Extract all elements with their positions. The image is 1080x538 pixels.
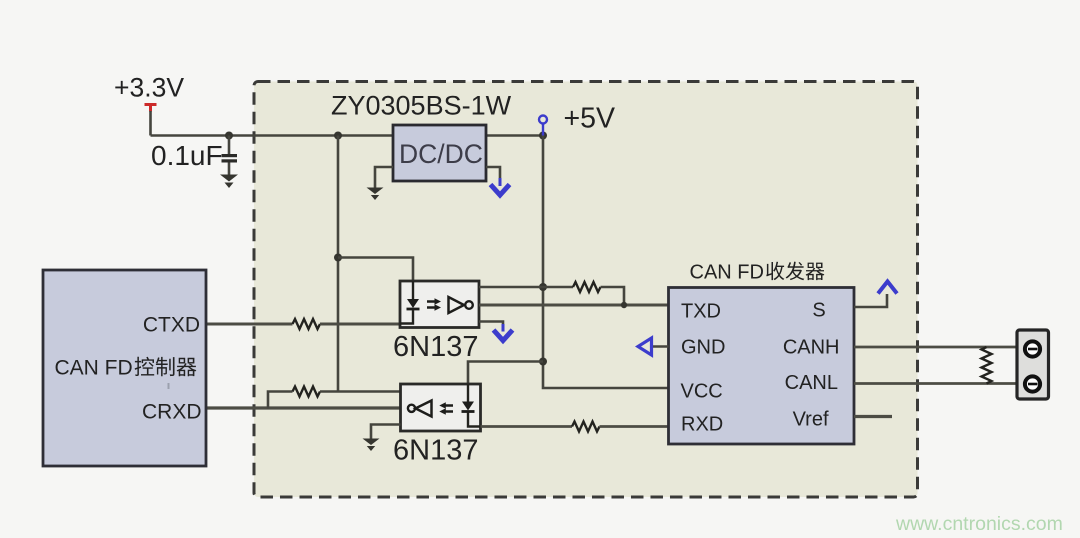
svg-text:CANL: CANL bbox=[785, 372, 838, 394]
stray mark bbox=[168, 383, 170, 389]
wire CANH bbox=[854, 346, 1017, 349]
wire +3.3V rail bbox=[151, 134, 396, 137]
wire CRXD bbox=[206, 406, 401, 409]
svg-text:S: S bbox=[812, 300, 825, 322]
svg-text:CAN FD: CAN FD bbox=[690, 262, 764, 284]
wire opto1 vcc to 5V bbox=[479, 286, 543, 289]
svg-text:Vref: Vref bbox=[793, 409, 829, 431]
wire opto1 output to TXD bbox=[479, 304, 669, 307]
node junction LED branch bbox=[334, 254, 342, 262]
wire +3.3V drop bbox=[149, 111, 152, 136]
svg-text:VCC: VCC bbox=[681, 381, 723, 403]
capacitor 0.1uF bbox=[151, 136, 237, 176]
wire opto1 gnd bbox=[479, 322, 503, 326]
power flag +3.3V bbox=[114, 73, 184, 112]
wire opto2 cathode to RXD bbox=[481, 425, 573, 428]
node junction 3.3V column bbox=[334, 132, 342, 140]
resistor (RXD series) bbox=[572, 422, 600, 432]
svg-text:RXD: RXD bbox=[681, 414, 723, 436]
power isolated (S pin, blue up arrow) bbox=[878, 282, 897, 294]
wire rail DCDC to +5V node bbox=[486, 134, 543, 137]
node junction +5V bbox=[539, 132, 547, 140]
wire LED anode branch bbox=[338, 258, 413, 283]
optocoupler U2 6N137 (receive) bbox=[401, 384, 481, 431]
wire CTXD to opto1 bbox=[320, 323, 400, 326]
transceiver box CAN FD bbox=[669, 262, 855, 445]
optocoupler U1 6N137 (transmit) bbox=[400, 281, 479, 328]
resistor (bus termination, vertical) bbox=[982, 347, 992, 384]
controller box CAN FD bbox=[43, 270, 206, 466]
wire S pin bbox=[854, 294, 887, 307]
node junction pullup bbox=[539, 283, 547, 291]
svg-text:CRXD: CRXD bbox=[142, 401, 202, 424]
node junction opto2 anode bbox=[539, 358, 547, 366]
DC/DC converter U3 bbox=[393, 125, 486, 181]
svg-text:6N137: 6N137 bbox=[393, 331, 478, 363]
ground isolated (DCDC output side, blue) bbox=[491, 178, 510, 195]
wire opto2 anode to 5V bbox=[468, 362, 543, 386]
wire pullup jog bbox=[268, 392, 293, 409]
power pin +5V bbox=[539, 103, 615, 136]
ground (DCDC input side) bbox=[367, 188, 384, 201]
ground isolated (transceiver GND, blue left arrow) bbox=[638, 338, 652, 355]
svg-text:www.cntronics.com: www.cntronics.com bbox=[895, 513, 1063, 535]
svg-text:ZY0305BS-1W: ZY0305BS-1W bbox=[331, 91, 512, 121]
wire GND pin bbox=[652, 345, 669, 348]
resistor (CTXD series) bbox=[293, 319, 321, 329]
wire opto2 gnd bbox=[371, 425, 401, 440]
wire pullup branch bbox=[543, 286, 573, 289]
wire to RXD pin bbox=[600, 425, 669, 428]
svg-text:DC/DC: DC/DC bbox=[399, 139, 483, 169]
svg-text:+5V: +5V bbox=[564, 103, 616, 135]
svg-text:CTXD: CTXD bbox=[143, 314, 200, 337]
wire CTXD bbox=[206, 323, 293, 326]
node junction cap bbox=[225, 132, 233, 140]
svg-text:GND: GND bbox=[681, 337, 725, 359]
ground (opto2 output side) bbox=[363, 439, 380, 452]
wire pullup to TXD line bbox=[601, 287, 625, 305]
wire 5V column bbox=[543, 136, 669, 389]
isolation module dashed box ZY0305BS-1W bbox=[254, 82, 918, 498]
wire 3.3V column bbox=[337, 136, 340, 392]
node junction TXD bbox=[621, 302, 627, 308]
svg-text:0.1uF: 0.1uF bbox=[151, 140, 223, 171]
svg-text:TXD: TXD bbox=[681, 301, 721, 323]
resistor (TXD pull-up) bbox=[573, 282, 601, 292]
wire DCDC left ground pin bbox=[375, 167, 393, 188]
ground isolated (opto1, blue) bbox=[494, 324, 513, 341]
connector J1 bbox=[1017, 330, 1049, 399]
svg-text:CANH: CANH bbox=[783, 337, 840, 359]
wire 3.3V to opto2 vcc bbox=[320, 390, 401, 393]
ground (cap) bbox=[220, 175, 238, 189]
wire DCDC right ground pin bbox=[486, 167, 500, 179]
svg-text:CAN FD: CAN FD bbox=[55, 357, 133, 380]
wire Vref stub bbox=[854, 415, 892, 418]
svg-text:6N137: 6N137 bbox=[393, 435, 478, 467]
svg-text:+3.3V: +3.3V bbox=[114, 73, 184, 103]
wire CANL bbox=[854, 382, 1017, 385]
resistor (CRXD pull-up) bbox=[293, 387, 321, 397]
